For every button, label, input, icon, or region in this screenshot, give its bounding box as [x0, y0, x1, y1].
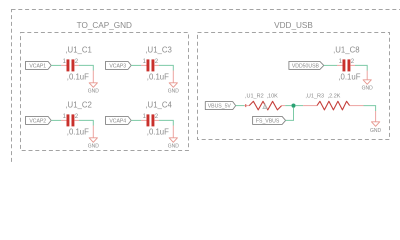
svg-text:GND: GND [168, 144, 180, 150]
wire U1_C1 pin 2 to ground [79, 65, 93, 70]
svg-text:,U1_R3: ,U1_R3 [305, 94, 324, 100]
ground GND at U1_C4 [168, 126, 180, 150]
svg-text:GND: GND [88, 89, 100, 95]
pin 1 end tick of U1_R2 [245, 104, 247, 107]
group box TO_CAP_GND [21, 33, 189, 151]
svg-text:VBUS_5V: VBUS_5V [208, 104, 232, 110]
svg-text:VDD_USB: VDD_USB [274, 21, 313, 30]
capacitor U1_C3 [141, 59, 159, 71]
wire VCAP1 to U1_C1 pin 1 [51, 64, 61, 66]
svg-text:,0.1uF: ,0.1uF [338, 72, 360, 81]
group box VDD_USB [198, 33, 390, 140]
svg-text:TO_CAP_GND: TO_CAP_GND [77, 21, 132, 30]
wire U1_C4 pin 2 to ground [159, 120, 173, 125]
capacitor U1_C1 [61, 59, 79, 71]
capacitor U1_C4 [141, 114, 159, 126]
svg-text:,U1_R2: ,U1_R2 [245, 94, 264, 100]
svg-text:,U1_C1: ,U1_C1 [65, 46, 91, 55]
svg-text:FS_VBUS: FS_VBUS [256, 118, 280, 124]
net label VDD50USB [289, 61, 324, 69]
resistor U1_R2 [244, 101, 285, 110]
svg-text:GND: GND [168, 89, 180, 95]
ground GND at U1_C8 [362, 71, 374, 92]
wire U1_C3 pin 2 to ground [159, 65, 173, 70]
capacitor U1_C2 [61, 114, 79, 126]
svg-text:,0.1uF: ,0.1uF [67, 72, 89, 81]
svg-text:,10K: ,10K [267, 94, 279, 100]
net label VCAP2 [26, 116, 52, 124]
resistor U1_R3 [303, 101, 363, 110]
wire VCAP4 to U1_C4 pin 1 [131, 119, 141, 121]
svg-text:GND: GND [362, 86, 374, 92]
wire U1_C8 pin 2 to ground [355, 65, 367, 70]
variant marker triangle under R2 [263, 104, 267, 109]
junction node [291, 104, 295, 108]
svg-text:,0.1uF: ,0.1uF [147, 72, 169, 81]
svg-text:,2.2K: ,2.2K [328, 94, 341, 100]
ground GND at U1_C2 [88, 126, 100, 150]
svg-text:,0.1uF: ,0.1uF [147, 127, 169, 136]
svg-text:VCAP4: VCAP4 [109, 118, 126, 124]
svg-text:,U1_C8: ,U1_C8 [333, 46, 359, 55]
ground GND at U1_C1 [88, 71, 100, 95]
wire VDD50USB to U1_C8 pin 1 [324, 64, 337, 66]
svg-text:GND: GND [88, 144, 100, 150]
wire node to R3 pin 1 [296, 105, 303, 107]
svg-text:VCAP3: VCAP3 [109, 63, 126, 69]
wire FS_VBUS to node [286, 108, 294, 121]
wire VBUS_5V to R2 pin 1 [236, 105, 245, 107]
wire VCAP2 to U1_C2 pin 1 [51, 119, 61, 121]
net label VBUS_5V [205, 102, 235, 110]
net label VCAP3 [106, 61, 132, 69]
capacitor U1_C8 [337, 59, 355, 71]
ground GND at U1_C3 [168, 71, 180, 95]
svg-text:,0.1uF: ,0.1uF [67, 127, 89, 136]
wire R2 pin 2 to node [285, 105, 291, 107]
wire U1_C2 pin 2 to ground [79, 120, 93, 125]
svg-text:,U1_C3: ,U1_C3 [145, 46, 171, 55]
svg-text:VDD50USB: VDD50USB [292, 63, 320, 69]
net label VCAP1 [26, 61, 52, 69]
svg-text:VCAP2: VCAP2 [29, 118, 46, 124]
net label FS_VBUS [253, 116, 286, 124]
net label VCAP4 [106, 116, 132, 124]
outer dashed sheet border [12, 10, 400, 200]
ground GND at R3 [370, 111, 382, 134]
svg-text:GND: GND [370, 128, 382, 134]
wire R3 pin 2 to ground [364, 106, 376, 111]
svg-text:,U1_C2: ,U1_C2 [65, 101, 91, 110]
svg-text:,U1_C4: ,U1_C4 [145, 101, 172, 110]
wire VCAP3 to U1_C3 pin 1 [131, 64, 141, 66]
svg-text:VCAP1: VCAP1 [29, 63, 46, 69]
